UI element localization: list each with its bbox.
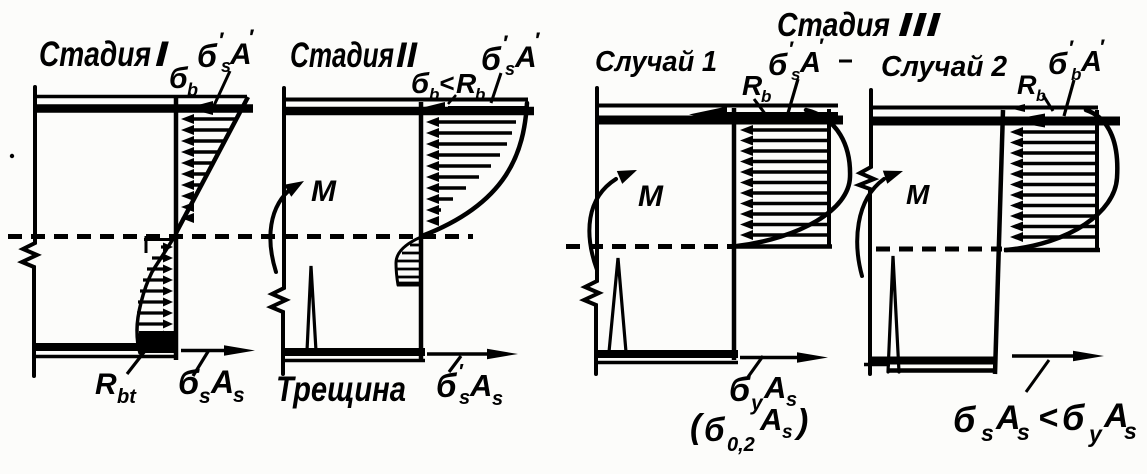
tension stress curve R_bt (diagram 1) (137, 232, 177, 353)
svg-text:<: < (1038, 399, 1058, 437)
moment arrow M (diagram 3) (589, 170, 637, 270)
beam top line (diagram 2) (282, 98, 528, 102)
leader line to label (diagram 4) (1026, 360, 1049, 392)
svg-text:y: y (1088, 421, 1103, 447)
top reinforcement bar A' (diagram 1) (35, 104, 253, 113)
svg-text:): ) (794, 403, 808, 441)
leader line to R_bt label (127, 342, 152, 374)
tension blob hatch lines (diagram 2) (396, 245, 419, 283)
svg-text:Стадия: Стадия (39, 35, 151, 74)
svg-text:A: A (469, 368, 492, 403)
svg-text:s: s (786, 389, 797, 411)
label sigma'_b A' (diagram 4) (1048, 36, 1105, 84)
neutral axis dashed line (diagram 3) (566, 244, 732, 249)
leader line to sigma_s A_s label (diagram 1) (193, 350, 209, 376)
svg-text:III: III (898, 6, 941, 43)
actual stress curve (diagram 3) (737, 110, 850, 246)
svg-text:′: ′ (1099, 36, 1105, 59)
compression stress arrows R_b (diagram 3) (740, 125, 828, 240)
arrow sigma_y A_s (diagram 3) (740, 352, 828, 363)
beam left edge with break (diagram 3) (584, 88, 599, 374)
neutral axis dashed line (diagram 4) (876, 247, 1002, 252)
svg-text:b: b (761, 87, 771, 106)
bottom reinforcement bar A_s (diagram 4) (864, 361, 997, 365)
beam right edge / stress zero line (diagram 1) (174, 98, 179, 360)
label sigma_y A_s (729, 370, 797, 415)
svg-text:б: б (197, 38, 218, 74)
dark tension block at bottom (diagram 1) (139, 331, 176, 353)
compression stress curve sigma_b (diagram 2) (422, 103, 527, 236)
label sigma'_s A_s (diagram 2) (436, 361, 503, 410)
beam left edge with break (diagram 4) (859, 90, 874, 374)
beam top line (diagram 4) (869, 106, 1098, 110)
svg-text:′: ′ (248, 25, 255, 50)
svg-text:б: б (481, 41, 502, 77)
label R_b (diagram 3) (742, 70, 771, 106)
leader line from sigma'_s A' label (211, 71, 230, 112)
svg-text:б: б (704, 411, 726, 448)
svg-text:s: s (492, 388, 503, 410)
moment arrow M (diagram 2) (270, 181, 304, 272)
svg-text:б: б (178, 364, 200, 402)
title: Стадия II (290, 36, 418, 75)
svg-text:б: б (729, 371, 751, 409)
leader line from sigma'_s A' label (diagram 2) (491, 73, 501, 103)
svg-text:′: ′ (1068, 37, 1074, 60)
tension blob curve below axis (diagram 2) (396, 237, 421, 285)
label sigma_s A_s (diagram 1) (178, 364, 245, 408)
svg-text:A: A (210, 364, 234, 400)
crack (diagram 2) (307, 266, 316, 351)
svg-text:′: ′ (534, 28, 541, 53)
title: Случай 2 (881, 51, 1007, 83)
svg-text:s: s (981, 420, 994, 446)
beam left edge with break (diagram 2) (271, 88, 286, 374)
bottom reinforcement bar A_s (diagram 1) (33, 343, 178, 351)
label sigma_b < R_b (diagram 2) (411, 68, 485, 104)
leader line from sigma'_s A' label (diagram 3) (786, 79, 798, 120)
stress block right edge (diagram 3) (827, 109, 831, 246)
label Трещина (276, 370, 406, 409)
svg-text:′: ′ (218, 28, 225, 53)
moment arrow M (diagram 4) (857, 171, 903, 276)
stray dash after label (839, 60, 852, 63)
svg-text:M: M (638, 180, 664, 213)
beam bottom line (diagram 3) (595, 361, 738, 365)
svg-text:R: R (742, 70, 763, 101)
svg-text:Трещина: Трещина (276, 370, 406, 409)
svg-text:б: б (169, 62, 189, 95)
svg-text:I: I (155, 35, 170, 74)
svg-text:<: < (439, 68, 454, 98)
leader tick from R_b label (diagram 3) (754, 99, 766, 115)
svg-text:(: ( (690, 408, 705, 446)
svg-text:s: s (459, 387, 470, 409)
svg-text:Стадия: Стадия (777, 6, 890, 43)
crack (diagram 4) (888, 256, 899, 372)
label sigma'_s A' (diagram 3) (768, 35, 824, 84)
title: Стадия III (777, 6, 941, 43)
svg-text:s: s (505, 59, 515, 79)
stress block right edge (diagram 4) (1095, 110, 1099, 250)
beam bottom line (diagram 4) (888, 368, 996, 373)
svg-text:R: R (1017, 70, 1037, 100)
svg-text:M: M (906, 179, 930, 210)
svg-text:б: б (1048, 46, 1068, 81)
leader line to sigma_s A_s label (diagram 2) (449, 356, 461, 372)
svg-text:Стадия: Стадия (290, 36, 394, 75)
svg-text:s: s (1017, 419, 1030, 445)
compression arrow in top bar (diagram 3) (689, 107, 838, 123)
arrow sigma_s A_s (diagram 2) (427, 349, 518, 359)
label sigma'_s A' (diagram 2) (481, 28, 541, 79)
beam top line (diagram 3) (595, 104, 838, 108)
stress triangle hypotenuse (diagram 1) (176, 97, 248, 233)
svg-text:R: R (456, 68, 477, 99)
label M (diagram 2) (311, 175, 337, 208)
stray dot speck (10, 154, 14, 158)
svg-text:б: б (1062, 397, 1086, 438)
compression arrow in top bar (diagram 4) (1007, 104, 1108, 128)
top reinforcement bar A' (diagram 2) (284, 107, 534, 116)
beam right edge / stress zero line (diagram 3) (732, 108, 737, 360)
crack (diagram 3) (609, 258, 626, 352)
compression stress arrows (diagram 1) (181, 114, 236, 223)
leader tick from R_b label (diagram 2) (448, 95, 456, 104)
beam bottom line (diagram 1) (33, 355, 178, 359)
svg-text:б: б (768, 47, 788, 82)
compression stress arrows R_b (diagram 4) (1010, 127, 1096, 242)
svg-text:б: б (953, 399, 977, 440)
leader tick from R_b label (diagram 4) (1043, 95, 1053, 111)
svg-text:R: R (95, 368, 117, 401)
svg-text:A: A (763, 370, 786, 405)
svg-text:s: s (1124, 418, 1137, 444)
svg-text:s: s (782, 422, 793, 443)
compression arrow in top bar (diagram 2) (419, 102, 526, 115)
svg-text:bt: bt (117, 386, 137, 408)
label sigma'_s A' (diagram 1) (197, 25, 255, 76)
stress block bottom line (diagram 3) (734, 244, 832, 249)
stress block bottom line (diagram 4) (1004, 248, 1100, 253)
neutral axis dashed line (diagrams 1-2) (8, 234, 473, 239)
label R_b (diagram 4) (1017, 70, 1046, 105)
leader line from sigma'_b A' label (diagram 4) (1064, 80, 1074, 116)
label (sigma_0,2 A_s) (690, 402, 808, 456)
label R_bt (95, 368, 137, 408)
title: Случай 1 (595, 46, 717, 78)
svg-text:Случай 2: Случай 2 (881, 51, 1007, 83)
tension stress arrows (diagram 1) (137, 243, 173, 340)
arrow sigma_s A_s (diagram 4) (1012, 351, 1104, 361)
compression arrow in top bar (diagram 1) (187, 101, 249, 115)
elastic-tension corner tick (diagram 1) (144, 236, 177, 253)
svg-text:б: б (411, 68, 430, 100)
svg-text:′: ′ (502, 31, 509, 56)
top reinforcement bar A' (diagram 3) (597, 116, 843, 125)
beam bottom line (diagram 2) (284, 359, 425, 363)
svg-text:A: A (759, 402, 782, 437)
svg-text:s: s (233, 384, 245, 407)
label M (diagram 4) (906, 179, 930, 210)
svg-text:s: s (199, 385, 211, 408)
svg-text:′: ′ (458, 361, 464, 383)
actual stress curve (diagram 4) (1006, 110, 1117, 250)
label sigma_b (diagram 1) (169, 62, 198, 100)
beam right edge / stress zero line (diagram 4) (995, 110, 1003, 374)
bottom reinforcement bar A_s (diagram 2) (284, 348, 425, 356)
beam left edge with break (diagram 1) (22, 87, 37, 376)
svg-text:M: M (311, 175, 337, 208)
arrow sigma_s A_s (diagram 1) (181, 345, 255, 356)
leader line to sigma_y A_s label (diagram 3) (748, 356, 763, 377)
label sigma_s A_s < sigma_y A_s (953, 397, 1137, 447)
bottom reinforcement bar A_s (diagram 3) (595, 350, 738, 358)
beam right edge / stress zero line (diagram 2) (419, 102, 424, 360)
beam top line (diagram 1) (33, 95, 247, 99)
compression stress arrows (diagram 2) (426, 117, 516, 226)
svg-text:Случай 1: Случай 1 (595, 46, 717, 78)
label M (diagram 3) (638, 180, 664, 213)
top reinforcement bar A' (diagram 4) (871, 117, 1120, 126)
title: Стадия I (39, 35, 170, 74)
svg-text:б: б (436, 367, 458, 404)
svg-text:0,2: 0,2 (727, 434, 755, 456)
